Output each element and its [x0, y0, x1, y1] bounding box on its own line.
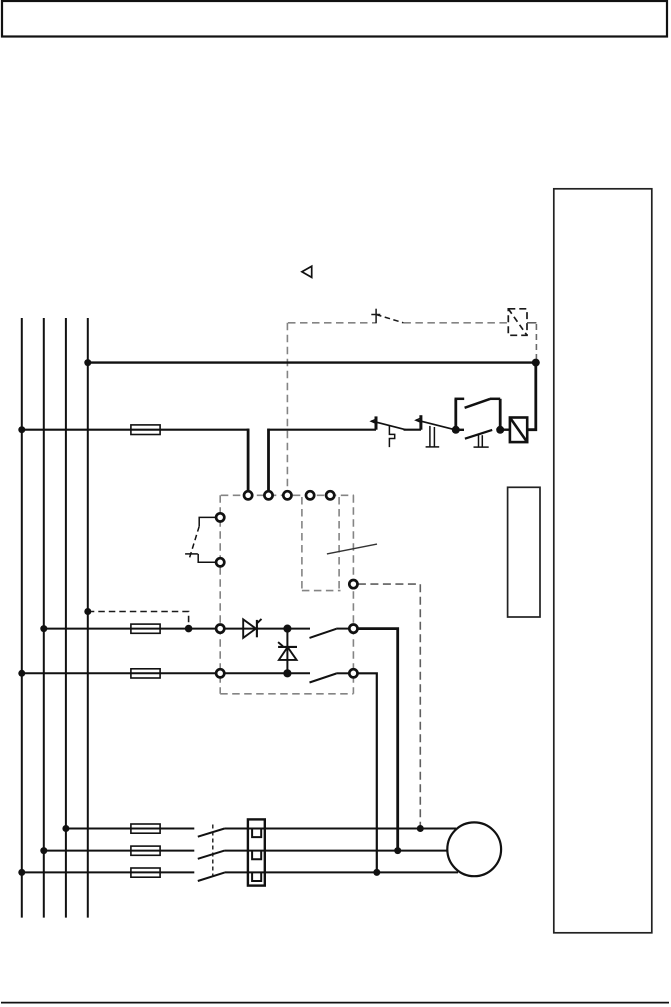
- thermal overload F7 box: [248, 819, 265, 885]
- fuse F2: [131, 846, 160, 855]
- zener column: wire node D down: [286, 629, 288, 674]
- holding contact K1 (parallel loop): [455, 399, 501, 430]
- socket pin 2: [264, 491, 272, 499]
- node heavy to wire B: [394, 847, 401, 854]
- contactor mechanical link: [212, 825, 214, 877]
- socket pin 11: [349, 669, 357, 677]
- socket pin 5: [326, 491, 334, 499]
- dashed control wire from L4 top: [88, 612, 189, 629]
- heater element 2: [252, 851, 261, 860]
- right panel rectangle (legend): [554, 189, 652, 933]
- node on L2: [40, 625, 47, 632]
- grey dashed connector left column x=220.2: [219, 495, 221, 694]
- fuse F1: [131, 824, 160, 833]
- motor feeder A (y=828.5): [66, 828, 194, 830]
- pushbutton S1 (stop): [371, 416, 405, 447]
- grey dashed pilot wire (right segment, y=322.8): [403, 322, 508, 324]
- node C junction: [496, 426, 504, 434]
- socket pin 1: [244, 491, 252, 499]
- relay contact K2-2: [310, 674, 337, 683]
- heavy wire pin9 to motor wire B: [358, 629, 398, 851]
- node on L4: [84, 359, 91, 366]
- dashed vertical link to node A: [535, 324, 537, 359]
- fuse F5: [131, 624, 160, 633]
- grey dashed wire pin to motor column: [358, 584, 420, 826]
- dashed relay coil K2 (phantom): [508, 309, 527, 336]
- wire node A down to coil K1: [527, 363, 536, 430]
- wire C through overload to motor: [225, 871, 459, 873]
- socket pin 4: [306, 491, 314, 499]
- title block frame: [2, 1, 667, 37]
- bottom page rule: [1, 1002, 669, 1004]
- bus line L1: [21, 318, 23, 918]
- node on L1: [18, 869, 25, 876]
- node E junction: [283, 669, 291, 677]
- heater element 1: [252, 829, 261, 838]
- motor M1: [447, 822, 501, 876]
- socket pin 6: [216, 513, 224, 521]
- manual switch S5 at connector: [185, 517, 216, 562]
- socket pin 9: [349, 625, 357, 633]
- control wire middle segment: [267, 429, 376, 431]
- node on L1: [18, 426, 25, 433]
- socket pin 10: [216, 669, 224, 677]
- bus line L4: [87, 318, 89, 918]
- contactor main contact K1-1: [198, 829, 225, 837]
- feeder wire 2 (y=673.3): [22, 672, 216, 674]
- wire A through overload to motor: [225, 828, 457, 830]
- socket pin 12: [349, 580, 357, 588]
- small legend rectangle: [508, 487, 540, 617]
- socket pin 3: [283, 491, 291, 499]
- node wire C: [373, 869, 380, 876]
- dashed pressure switch contact S4: [371, 309, 403, 324]
- bus line L3: [65, 318, 67, 918]
- zener diode V2: [278, 642, 297, 660]
- pushbutton S2 (start): [416, 415, 456, 447]
- wire pin10 to node E: [225, 672, 310, 674]
- node A junction: [532, 359, 540, 367]
- fuse F6: [131, 669, 160, 678]
- relay contact K2-1: [310, 629, 337, 638]
- wire pin11 to motor wire C: [358, 673, 377, 872]
- motor feeder C (y=872.4): [22, 871, 195, 873]
- grey dashed inner box (selector): [302, 497, 341, 591]
- node dashed tap: [185, 625, 193, 633]
- wire pin8 to diode: [225, 628, 310, 630]
- wire to pin 9: [336, 628, 349, 630]
- motor feeder B (y=850.6): [44, 850, 195, 852]
- contactor coil K1: [510, 418, 527, 443]
- node on L3: [62, 825, 69, 832]
- drop wire to plug pin 1: [247, 429, 250, 491]
- dashed vertical wire x=287.4: [286, 323, 288, 491]
- node dashed to wire A: [417, 825, 424, 832]
- fuse F4: [131, 425, 160, 435]
- main supply wire (y=362.6): [88, 361, 536, 363]
- grey dashed pilot wire (left segment, y=322.8): [288, 322, 376, 324]
- wire node C to coil K1: [500, 429, 510, 431]
- phantom coil output link: [527, 322, 536, 324]
- wire between S1 and S2: [404, 429, 422, 431]
- selector lever line: [327, 544, 377, 554]
- grey dashed connector row (y=495.3): [221, 494, 354, 496]
- socket pin 8: [216, 625, 224, 633]
- grey dashed connector bottom (y=693.8): [220, 693, 353, 695]
- node on L4 for dashed tap: [84, 608, 91, 615]
- socket pin 7: [216, 558, 224, 566]
- control wire from L1 (y=429.7): [22, 429, 249, 431]
- wire to pin 11: [336, 672, 349, 674]
- grey dashed connector right column x=353.4: [352, 495, 354, 694]
- limit contact S3 (lower path): [456, 430, 492, 447]
- node B junction: [452, 426, 460, 434]
- node on L2: [40, 847, 47, 854]
- contactor main contact K1-3: [198, 873, 225, 881]
- fuse F3: [131, 868, 160, 877]
- bus line L2: [43, 318, 45, 918]
- node D junction: [283, 625, 291, 633]
- marker triangle: [302, 266, 312, 277]
- contactor main contact K1-2: [198, 851, 225, 859]
- diode V1: [243, 619, 261, 638]
- wire B through overload to motor: [225, 850, 449, 852]
- node on L1: [18, 670, 25, 677]
- drop wire to plug pin 2: [267, 429, 270, 491]
- feeder wire 1 (y=628.6): [44, 628, 216, 630]
- heater element 3: [252, 872, 261, 881]
